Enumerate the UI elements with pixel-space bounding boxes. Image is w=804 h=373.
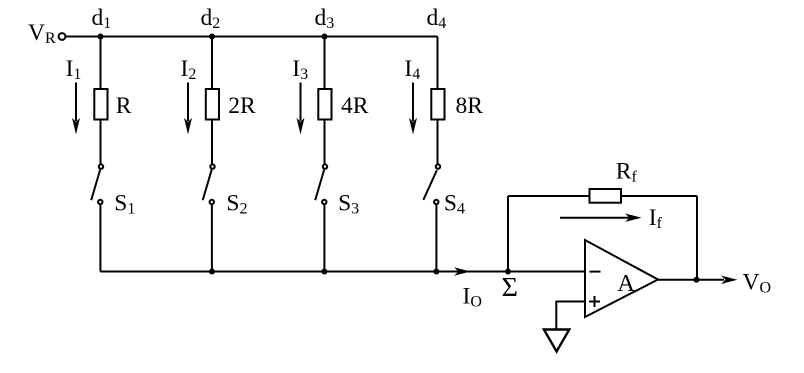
svg-text:Rf: Rf xyxy=(616,158,638,185)
wire: branch 4 below resistor xyxy=(437,120,439,165)
node output junction xyxy=(694,277,700,283)
svg-text:Σ: Σ xyxy=(502,272,519,302)
op-amp A xyxy=(585,240,658,317)
input terminal circle xyxy=(59,33,66,40)
current arrow Io head xyxy=(454,267,471,275)
svg-text:I4: I4 xyxy=(404,56,420,83)
svg-text:I2: I2 xyxy=(181,56,197,83)
switch S4 xyxy=(436,164,440,168)
wire: feedback left vertical xyxy=(507,196,509,272)
wire: non-inverting input to ground xyxy=(556,302,585,330)
wire: feedback right vertical xyxy=(696,196,698,280)
resistor 4R xyxy=(318,89,331,120)
svg-text:VO: VO xyxy=(743,269,772,296)
node d1 xyxy=(98,34,104,40)
switch S2 xyxy=(210,164,214,168)
op-amp plus pin mark xyxy=(589,301,600,303)
switch S3 xyxy=(323,164,327,168)
svg-text:R: R xyxy=(116,93,132,119)
junction at S4 xyxy=(433,269,439,275)
wire: branch 1 below resistor xyxy=(100,120,102,165)
output arrow head xyxy=(721,276,738,284)
ground xyxy=(544,330,569,352)
node sum junction xyxy=(505,269,511,275)
svg-text:d4: d4 xyxy=(427,5,447,32)
resistor 2R xyxy=(206,89,219,120)
svg-text:d1: d1 xyxy=(92,5,112,32)
node d3 xyxy=(322,34,328,40)
wire: branch 3 upper xyxy=(324,37,326,90)
svg-text:If: If xyxy=(649,205,663,232)
svg-text:4R: 4R xyxy=(341,93,369,119)
wire: branch 3 below resistor xyxy=(324,120,326,165)
resistor 8R xyxy=(431,89,444,120)
resistor Rf xyxy=(590,189,622,203)
junction at S2 xyxy=(209,269,215,275)
wire: branch 4 upper xyxy=(437,37,439,90)
svg-text:d2: d2 xyxy=(201,5,221,32)
op-amp minus pin mark xyxy=(590,271,601,273)
wire: feedback top right xyxy=(621,195,697,197)
svg-text:S4: S4 xyxy=(444,191,465,218)
svg-text:A: A xyxy=(617,270,635,297)
current arrow I1 xyxy=(72,83,80,135)
svg-text:8R: 8R xyxy=(456,93,484,119)
svg-text:IO: IO xyxy=(463,283,482,310)
svg-text:2R: 2R xyxy=(228,93,256,119)
current arrow I3 xyxy=(297,83,305,135)
svg-text:S1: S1 xyxy=(114,191,135,218)
resistor R xyxy=(94,89,107,120)
svg-text:I3: I3 xyxy=(292,56,308,83)
current arrow I2 xyxy=(184,83,192,135)
switch S1 xyxy=(99,164,103,168)
current arrow If xyxy=(560,217,632,219)
junction at S3 xyxy=(321,269,327,275)
wire: branch 1 upper xyxy=(100,37,102,90)
wire: branch 2 below resistor xyxy=(211,120,213,165)
svg-text:S2: S2 xyxy=(226,191,247,218)
wire: feedback top left xyxy=(508,195,590,197)
wire: branch 2 upper xyxy=(211,37,213,90)
svg-text:d3: d3 xyxy=(315,5,335,32)
svg-text:S3: S3 xyxy=(338,191,359,218)
node d2 xyxy=(209,34,215,40)
wire: output xyxy=(658,279,724,281)
svg-text:I1: I1 xyxy=(66,56,82,83)
wire: bottom summing bus xyxy=(100,271,585,273)
current arrow I4 xyxy=(409,83,417,135)
wire: top bus from input terminal to d4 xyxy=(66,36,438,38)
svg-text:VR: VR xyxy=(28,20,56,47)
